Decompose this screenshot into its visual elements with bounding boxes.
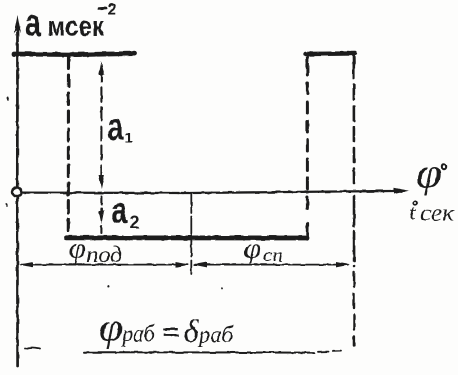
x-axis — [21, 191, 404, 193]
right pulse left dashed edge — [306, 64, 309, 214]
svg-text:1: 1 — [125, 130, 133, 147]
svg-text:φ: φ — [244, 234, 262, 265]
svg-text:2: 2 — [108, 2, 117, 19]
right pulse top line — [306, 51, 356, 56]
dimension line phi_pod — [21, 264, 187, 266]
label exponent -2 — [99, 7, 106, 10]
svg-text:сек: сек — [420, 201, 454, 226]
dimension line phi_sp — [195, 264, 348, 266]
bottom line of negative step — [66, 235, 307, 240]
x-axis arrowhead — [394, 188, 409, 194]
svg-text:раб: раб — [197, 323, 234, 349]
y-axis — [16, 26, 19, 366]
svg-text:а: а — [25, 3, 42, 45]
top line of left pulse — [14, 54, 135, 55]
svg-text:=: = — [163, 320, 180, 345]
svg-text:δ: δ — [184, 313, 200, 349]
right pulse right dashed edge, extended down — [352, 64, 355, 188]
origin circle — [12, 187, 21, 196]
svg-text:под: под — [87, 242, 123, 267]
svg-text:φ: φ — [416, 151, 442, 197]
a2 measure arrow — [100, 196, 102, 214]
right pulse top corner stubs — [306, 55, 309, 62]
dimension line phi_rab (dashed) — [25, 348, 40, 349]
bottom line right upturn — [306, 224, 309, 239]
svg-text:φ: φ — [69, 232, 86, 265]
speck marks — [7, 97, 8, 100]
svg-text:а: а — [108, 107, 125, 149]
svg-text:2: 2 — [130, 213, 140, 233]
divider extension line at phi_pod end — [190, 195, 192, 275]
svg-text:мсек: мсек — [48, 11, 105, 42]
y-axis arrowhead — [14, 15, 21, 33]
dashed vertical, left pulse right edge — [67, 57, 70, 233]
svg-text:φ: φ — [99, 305, 123, 350]
a1 measure arrow — [100, 68, 102, 184]
svg-text:сп: сп — [263, 245, 283, 266]
svg-text:а: а — [112, 190, 128, 231]
svg-text:раб: раб — [121, 322, 156, 348]
